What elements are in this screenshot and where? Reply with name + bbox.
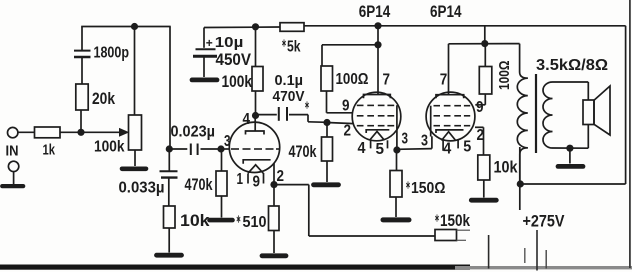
svg-text:0.033µ: 0.033µ xyxy=(119,180,165,197)
svg-text:1: 1 xyxy=(237,171,244,188)
svg-text:1k: 1k xyxy=(43,143,56,159)
svg-text:10k: 10k xyxy=(180,212,211,230)
svg-text:4: 4 xyxy=(358,140,366,157)
svg-text:5: 5 xyxy=(463,139,471,156)
svg-text:5: 5 xyxy=(376,141,385,158)
svg-text:3: 3 xyxy=(224,133,231,150)
svg-text:+: + xyxy=(206,36,213,50)
svg-text:4: 4 xyxy=(443,141,451,158)
svg-text:100k: 100k xyxy=(94,139,125,156)
svg-text:3: 3 xyxy=(402,131,409,148)
svg-text:470k: 470k xyxy=(185,176,214,194)
svg-text:2: 2 xyxy=(344,123,352,140)
svg-text:9: 9 xyxy=(476,99,484,116)
svg-text:∗: ∗ xyxy=(282,38,287,50)
svg-text:0.1µ: 0.1µ xyxy=(275,73,304,89)
svg-text:470V: 470V xyxy=(273,89,305,105)
svg-text:∗: ∗ xyxy=(406,180,411,192)
svg-text:∗: ∗ xyxy=(305,100,310,112)
svg-text:100Ω: 100Ω xyxy=(496,61,513,91)
svg-text:0.023µ: 0.023µ xyxy=(171,124,216,141)
svg-text:150k: 150k xyxy=(440,212,471,230)
svg-text:9: 9 xyxy=(253,174,261,191)
svg-text:7: 7 xyxy=(440,71,448,88)
svg-text:IN: IN xyxy=(6,144,19,160)
svg-text:4: 4 xyxy=(243,111,251,128)
svg-text:510: 510 xyxy=(243,214,267,231)
svg-text:7: 7 xyxy=(383,71,391,88)
svg-text:100k: 100k xyxy=(222,73,253,91)
svg-text:470k: 470k xyxy=(289,143,318,161)
svg-text:6P14: 6P14 xyxy=(430,3,462,21)
svg-text:10µ: 10µ xyxy=(215,35,244,51)
svg-text:150Ω: 150Ω xyxy=(411,180,446,197)
svg-text:10k: 10k xyxy=(494,159,519,177)
svg-text:9: 9 xyxy=(342,98,350,115)
svg-text:450V: 450V xyxy=(216,50,252,69)
svg-text:1800p: 1800p xyxy=(94,45,130,62)
svg-text:2: 2 xyxy=(277,168,285,185)
svg-text:+275V: +275V xyxy=(523,212,566,231)
svg-text:3: 3 xyxy=(421,133,428,150)
svg-text:20k: 20k xyxy=(92,90,116,108)
svg-text:∗: ∗ xyxy=(236,214,241,226)
svg-text:100Ω: 100Ω xyxy=(336,71,369,88)
svg-text:∗: ∗ xyxy=(435,213,440,225)
svg-text:5k: 5k xyxy=(287,38,301,55)
svg-text:6P14: 6P14 xyxy=(359,3,391,21)
svg-text:3.5kΩ/8Ω: 3.5kΩ/8Ω xyxy=(536,57,608,74)
